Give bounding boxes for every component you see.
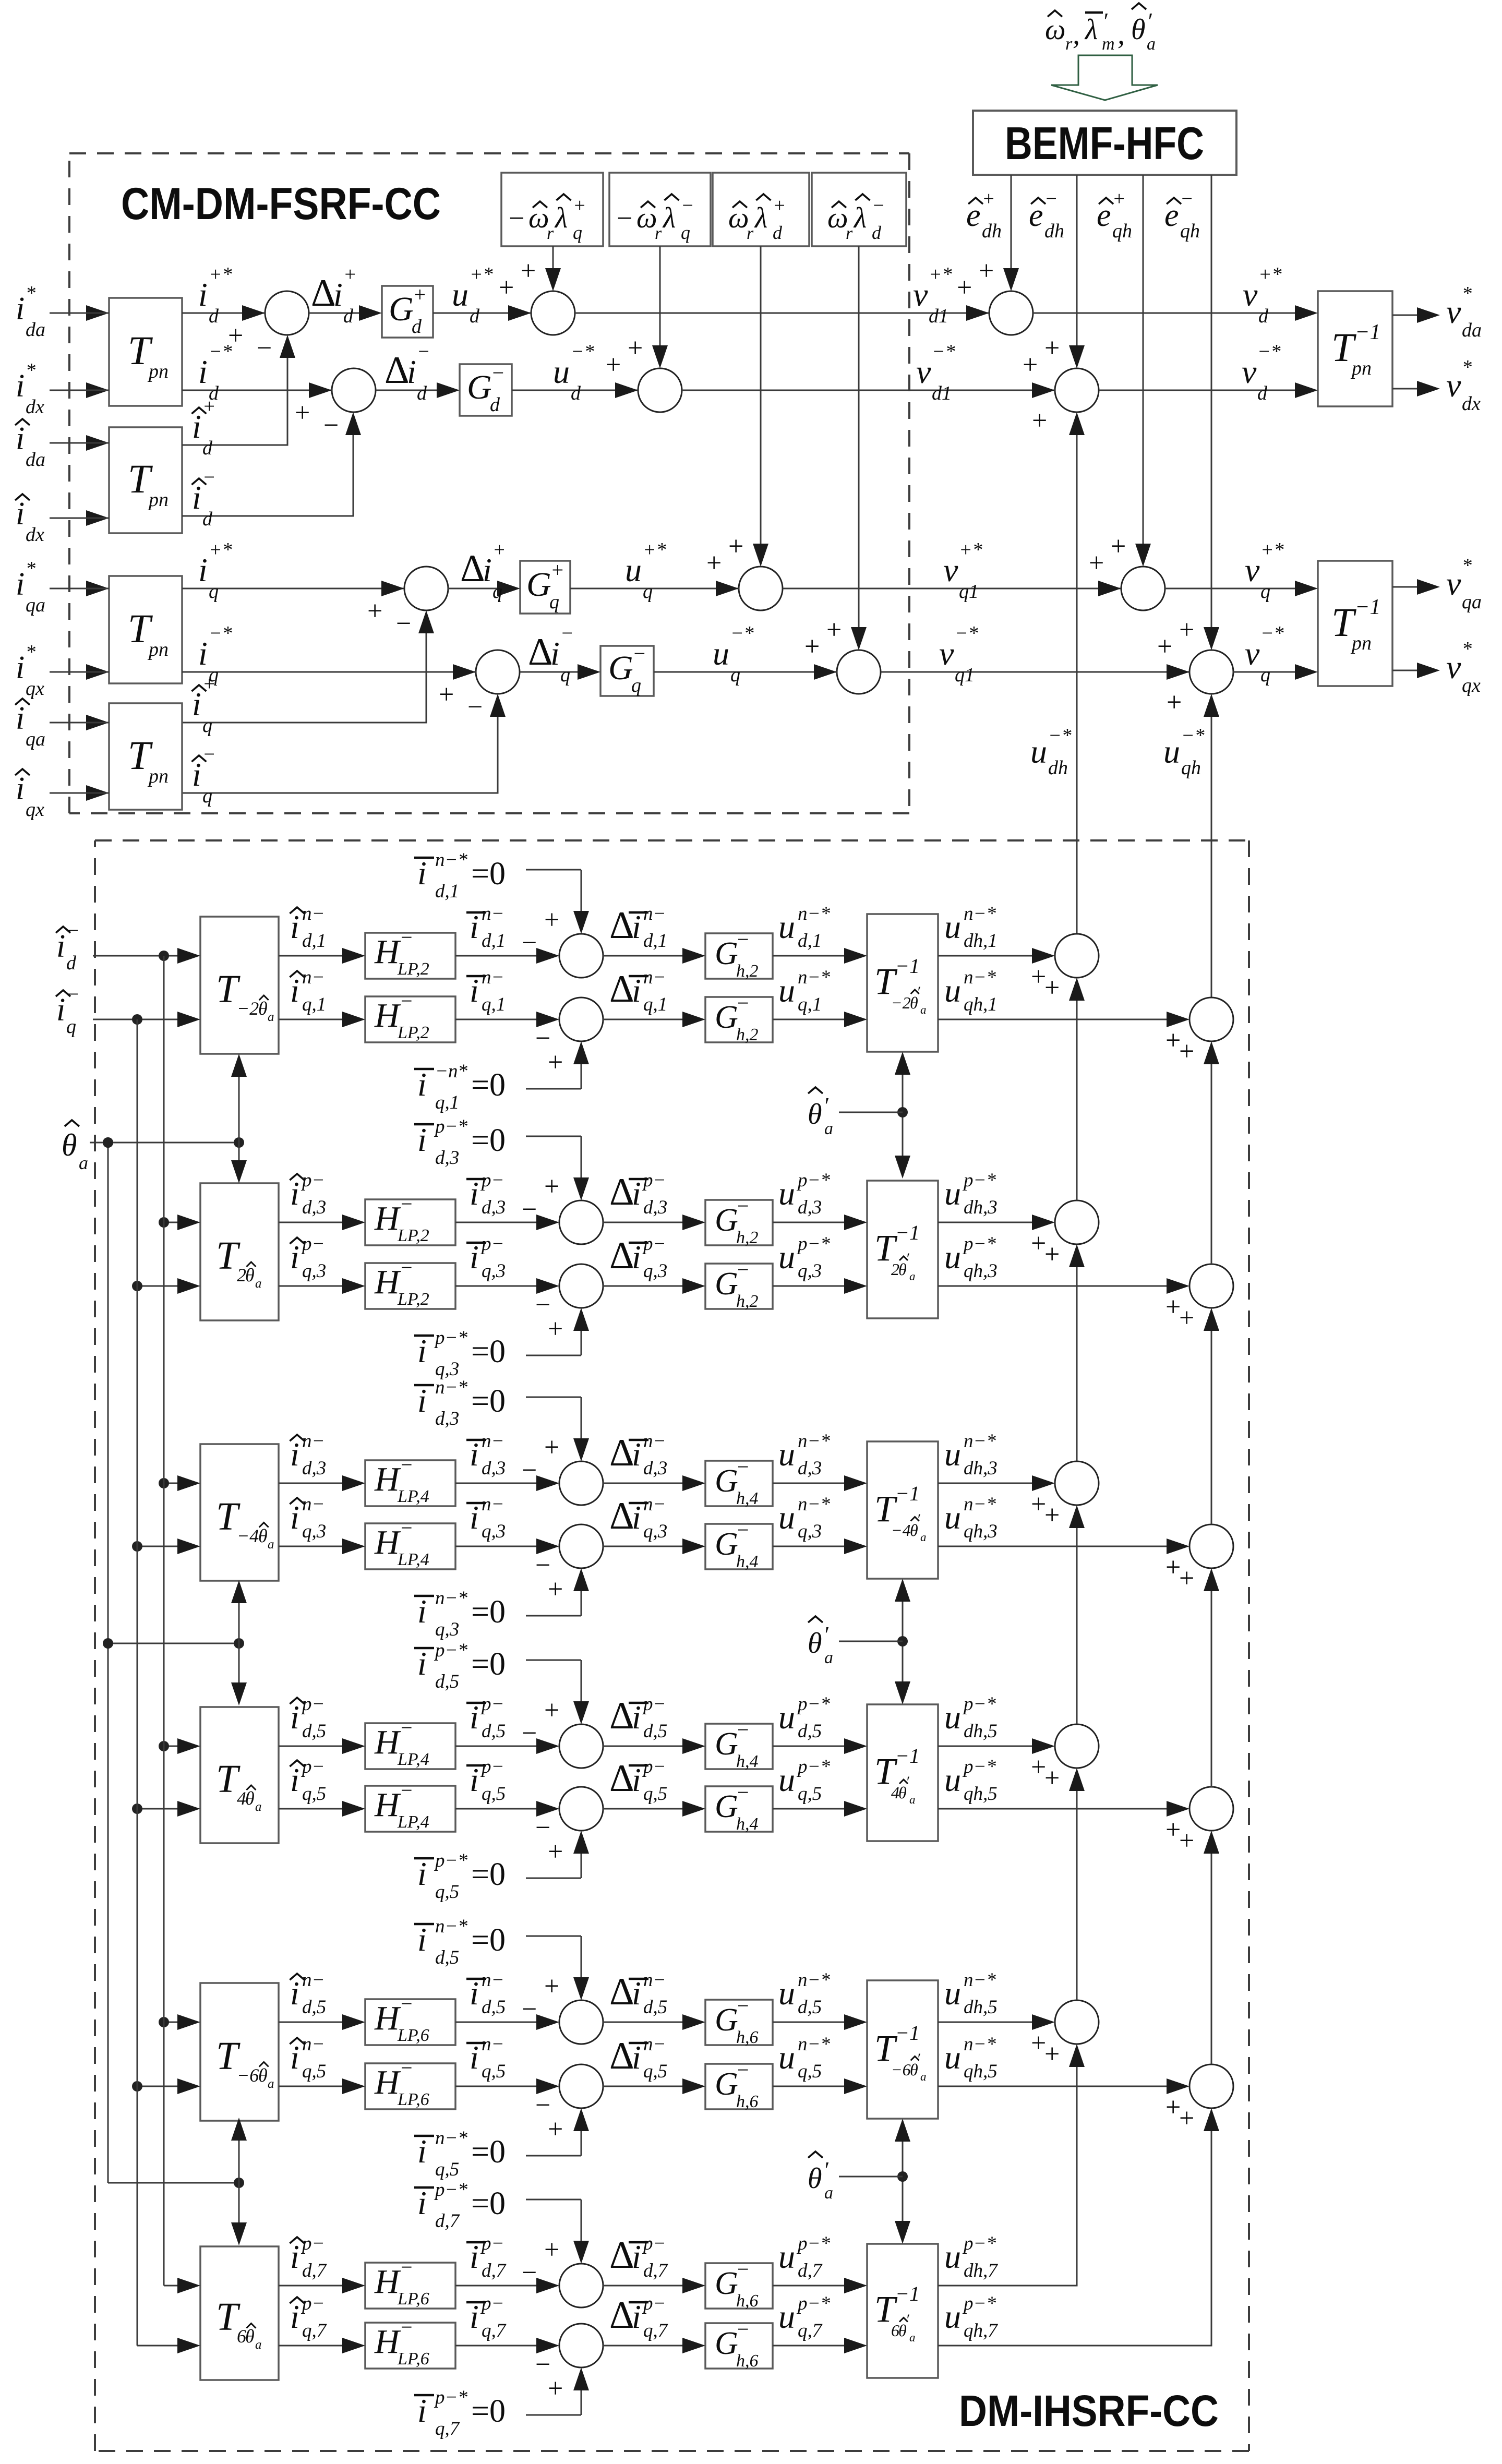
svg-text:i: i	[56, 992, 65, 1028]
svg-text:u: u	[778, 972, 795, 1009]
svg-text:i: i	[290, 1436, 299, 1473]
svg-text:d,1: d,1	[798, 930, 822, 952]
svg-text:d,5: d,5	[798, 1721, 822, 1742]
svg-text:u: u	[944, 972, 961, 1009]
svg-text:−: −	[323, 411, 339, 440]
svg-text:d,5: d,5	[643, 1997, 667, 2018]
svg-text:+: +	[1031, 1752, 1046, 1782]
svg-text:p−: p−	[480, 1170, 504, 1191]
svg-text:Δ: Δ	[609, 2294, 634, 2337]
svg-text:+: +	[202, 673, 216, 695]
svg-text:pn: pn	[147, 360, 169, 382]
svg-text:q,3: q,3	[482, 1260, 506, 1282]
svg-text:d: d	[343, 305, 354, 327]
svg-text:q,3: q,3	[643, 1260, 667, 1282]
svg-text:θ: θ	[258, 1525, 268, 1546]
svg-text:p−*: p−*	[434, 1327, 467, 1349]
svg-text:+: +	[367, 596, 382, 626]
svg-text:h,6: h,6	[736, 2291, 759, 2311]
svg-text:q: q	[631, 675, 641, 696]
svg-text:i: i	[470, 2039, 479, 2076]
svg-text:LP,2: LP,2	[397, 1023, 429, 1042]
svg-text:n−: n−	[302, 1494, 325, 1515]
svg-text:u: u	[778, 2298, 795, 2335]
svg-text:+: +	[1179, 2104, 1194, 2133]
svg-text:v: v	[913, 276, 928, 313]
svg-text:u: u	[452, 276, 468, 313]
svg-text:h,2: h,2	[736, 1228, 759, 1247]
svg-text:q,1: q,1	[435, 1092, 459, 1113]
svg-text:q,3: q,3	[302, 1521, 326, 1542]
svg-text:i: i	[632, 1761, 641, 1798]
svg-text:d: d	[202, 508, 213, 530]
svg-text:Δ: Δ	[384, 349, 410, 392]
svg-text:−: −	[522, 2258, 537, 2288]
svg-text:i: i	[290, 972, 299, 1009]
svg-text:q,5: q,5	[798, 2061, 822, 2082]
svg-text:i: i	[417, 1921, 427, 1958]
svg-text:i: i	[192, 686, 201, 723]
svg-text:a: a	[79, 1152, 88, 1173]
svg-text:n−*: n−*	[964, 903, 996, 924]
svg-text:Δ: Δ	[311, 272, 336, 315]
svg-text:dh,5: dh,5	[964, 1721, 998, 1742]
svg-text:+: +	[550, 558, 564, 582]
svg-text:−: −	[396, 609, 411, 639]
svg-text:+: +	[1031, 1229, 1046, 1258]
svg-text:−1: −1	[1355, 320, 1380, 344]
svg-text:v: v	[943, 551, 958, 588]
svg-text:+: +	[1179, 1564, 1194, 1593]
svg-text:v: v	[916, 353, 931, 390]
svg-text:LP,6: LP,6	[397, 2349, 429, 2369]
svg-text:h,4: h,4	[736, 1752, 759, 1771]
svg-text:+: +	[1023, 350, 1038, 380]
svg-text:p−: p−	[301, 1170, 325, 1191]
svg-text:qh,3: qh,3	[964, 1260, 998, 1282]
svg-text:v: v	[1245, 551, 1260, 588]
svg-text:dh,3: dh,3	[964, 1458, 998, 1479]
svg-text:+: +	[1167, 688, 1182, 717]
svg-text:+*: +*	[643, 539, 666, 561]
svg-text:Δ: Δ	[609, 1757, 634, 1800]
svg-text:+: +	[548, 2374, 563, 2403]
svg-text:*: *	[26, 282, 35, 304]
svg-text:n−: n−	[302, 967, 325, 988]
svg-text:−4: −4	[237, 1525, 259, 1546]
svg-text:+: +	[1031, 1489, 1046, 1519]
svg-text:da: da	[26, 449, 45, 471]
svg-text:λ: λ	[754, 202, 767, 234]
svg-text:d,3: d,3	[302, 1458, 326, 1479]
svg-text:LP,4: LP,4	[397, 1812, 429, 1832]
svg-text:i: i	[632, 1175, 641, 1212]
svg-text:*: *	[26, 359, 35, 381]
svg-text:−: −	[737, 928, 749, 951]
svg-text:+: +	[492, 539, 506, 561]
svg-text:+: +	[1031, 962, 1046, 992]
svg-text:G: G	[715, 2266, 738, 2301]
svg-text:−: −	[401, 925, 413, 949]
svg-text:d: d	[417, 382, 427, 404]
svg-text:−: −	[401, 1256, 413, 1279]
svg-text:v: v	[1242, 353, 1257, 390]
svg-text:p−*: p−*	[962, 1233, 996, 1255]
svg-text:dx: dx	[26, 396, 44, 418]
svg-text:a: a	[920, 1531, 927, 1544]
svg-text:q: q	[1260, 581, 1270, 603]
svg-text:G: G	[389, 290, 414, 328]
svg-text:q: q	[681, 222, 690, 243]
svg-text:i: i	[16, 421, 25, 456]
svg-text:+: +	[1179, 1826, 1194, 1856]
svg-text:i: i	[198, 353, 208, 390]
svg-text:v: v	[1446, 367, 1461, 404]
svg-text:p−: p−	[642, 1170, 666, 1191]
svg-text:q,3: q,3	[798, 1260, 822, 1282]
svg-text:−: −	[681, 195, 694, 217]
svg-text:=0: =0	[471, 856, 506, 892]
svg-text:n−*: n−*	[964, 1431, 996, 1452]
svg-text:−: −	[202, 466, 216, 488]
svg-text:′: ′	[906, 1250, 909, 1267]
svg-text:p−*: p−*	[796, 1233, 830, 1255]
svg-text:+: +	[1044, 2039, 1060, 2069]
svg-text:a: a	[268, 1010, 274, 1024]
svg-text:+: +	[1179, 1037, 1194, 1066]
svg-text:q: q	[209, 581, 219, 603]
svg-text:θ: θ	[245, 1265, 255, 1285]
svg-text:+: +	[1044, 333, 1060, 363]
svg-text:pn: pn	[147, 765, 169, 787]
svg-text:−*: −*	[1048, 725, 1072, 747]
svg-text:−: −	[617, 202, 632, 234]
svg-text:h,2: h,2	[736, 961, 759, 981]
svg-text:d: d	[209, 305, 219, 327]
svg-text:LP,4: LP,4	[397, 1750, 429, 1769]
svg-text:−1: −1	[895, 1482, 920, 1505]
svg-text:+: +	[1044, 973, 1060, 1003]
svg-text:u: u	[778, 1436, 795, 1473]
svg-text:h,2: h,2	[736, 1292, 759, 1311]
svg-text:qx: qx	[26, 678, 44, 700]
svg-text:*: *	[1462, 356, 1472, 378]
svg-text:G: G	[715, 1203, 738, 1238]
svg-text:u: u	[1163, 733, 1180, 770]
svg-text:′: ′	[906, 2311, 909, 2328]
svg-text:n−: n−	[482, 1494, 504, 1515]
svg-text:i: i	[333, 276, 343, 313]
svg-text:*: *	[1462, 283, 1472, 305]
svg-text:i: i	[632, 972, 641, 1009]
svg-text:=0: =0	[471, 1067, 506, 1103]
svg-text:−: −	[737, 2317, 749, 2341]
svg-text:h,6: h,6	[736, 2028, 759, 2047]
svg-text:i: i	[417, 1593, 427, 1630]
svg-text:−: −	[737, 1518, 749, 1542]
svg-text:h,6: h,6	[736, 2092, 759, 2111]
svg-text:u: u	[778, 2238, 795, 2275]
svg-text:−: −	[202, 743, 216, 765]
svg-text:−: −	[401, 1992, 413, 2015]
svg-text:−: −	[737, 1718, 749, 1741]
svg-text:n−*: n−*	[964, 1969, 996, 1991]
svg-text:qh,3: qh,3	[964, 1521, 998, 1542]
svg-text:p−: p−	[642, 2233, 666, 2254]
svg-text:q,5: q,5	[482, 1783, 506, 1805]
svg-text:−*: −*	[730, 622, 754, 644]
svg-text:+: +	[1179, 1303, 1194, 1333]
svg-text:−1: −1	[1355, 595, 1380, 619]
svg-text:−: −	[737, 991, 749, 1015]
svg-text:=0: =0	[471, 1123, 506, 1158]
svg-text:q,1: q,1	[482, 994, 506, 1015]
svg-text:i: i	[290, 2238, 299, 2275]
svg-text:d: d	[1257, 382, 1268, 404]
svg-text:a: a	[255, 1800, 262, 1814]
svg-text:ω: ω	[1045, 14, 1066, 46]
svg-text:i: i	[470, 1499, 479, 1536]
svg-text:q: q	[1260, 664, 1270, 686]
svg-text:+: +	[628, 333, 643, 363]
svg-text:p−: p−	[642, 2293, 666, 2314]
svg-text:−*: −*	[1181, 725, 1205, 747]
svg-text:u: u	[625, 551, 642, 588]
svg-text:u: u	[1030, 733, 1047, 770]
svg-text:i: i	[16, 567, 25, 602]
svg-text:′: ′	[906, 1773, 909, 1790]
svg-text:p−*: p−*	[796, 1756, 830, 1777]
svg-text:i: i	[417, 1066, 427, 1103]
svg-text:u: u	[553, 353, 570, 390]
svg-text:−*: −*	[932, 341, 955, 363]
svg-text:i: i	[417, 1332, 427, 1369]
svg-text:qh,1: qh,1	[964, 994, 998, 1015]
svg-text:pn: pn	[147, 639, 169, 660]
svg-text:+: +	[1031, 2028, 1046, 2058]
svg-text:Δ: Δ	[609, 904, 634, 947]
svg-text:d,1: d,1	[482, 930, 506, 952]
svg-text:dh,1: dh,1	[964, 930, 998, 952]
svg-text:q,7: q,7	[482, 2320, 507, 2341]
svg-text:G: G	[715, 2066, 738, 2102]
svg-text:d: d	[66, 952, 77, 974]
svg-text:i: i	[417, 1855, 427, 1892]
svg-text:+: +	[982, 188, 995, 210]
svg-text:n−: n−	[482, 967, 504, 988]
svg-text:+: +	[544, 1433, 559, 1462]
svg-text:i: i	[470, 972, 479, 1009]
svg-text:G: G	[715, 1789, 738, 1824]
svg-text:v: v	[1446, 565, 1461, 602]
svg-text:′: ′	[1102, 8, 1108, 34]
svg-text:−: −	[401, 2255, 413, 2279]
svg-text:θ: θ	[62, 1128, 77, 1162]
svg-text:−*: −*	[209, 341, 232, 363]
svg-text:−: −	[737, 1781, 749, 1804]
svg-text:q,1: q,1	[302, 994, 326, 1015]
svg-text:u: u	[944, 1175, 961, 1212]
svg-text:+: +	[773, 195, 786, 217]
svg-text:i: i	[632, 1975, 641, 2012]
svg-text:Δ: Δ	[609, 1234, 634, 1277]
svg-text:d1: d1	[932, 382, 952, 404]
svg-text:=0: =0	[471, 1384, 506, 1419]
svg-text:d: d	[872, 222, 882, 243]
svg-text:+: +	[1165, 1815, 1181, 1845]
svg-text:−: −	[401, 1716, 413, 1739]
svg-text:q: q	[202, 785, 212, 807]
svg-text:+: +	[1032, 406, 1047, 436]
svg-text:u: u	[944, 1499, 961, 1536]
svg-text:+: +	[548, 1314, 563, 1344]
svg-text:n−: n−	[482, 1431, 504, 1452]
svg-text:u: u	[944, 1239, 961, 1276]
svg-text:θ: θ	[808, 2162, 822, 2195]
svg-text:p−: p−	[642, 1693, 666, 1715]
svg-text:a: a	[268, 1537, 274, 1552]
svg-text:d,5: d,5	[302, 1997, 326, 2018]
svg-text:θ: θ	[808, 1627, 822, 1660]
svg-text:u: u	[778, 1975, 795, 2012]
svg-text:−: −	[467, 692, 483, 722]
svg-text:n−*: n−*	[798, 903, 830, 924]
svg-text:dh,5: dh,5	[964, 1997, 998, 2018]
svg-text:i: i	[407, 353, 416, 390]
svg-text:Δ: Δ	[609, 1171, 634, 1213]
svg-text:h,2: h,2	[736, 1025, 759, 1044]
svg-text:i: i	[632, 2298, 641, 2335]
svg-text:+: +	[1179, 615, 1194, 645]
svg-text:+: +	[1165, 1026, 1181, 1055]
svg-text:p−*: p−*	[434, 1640, 467, 1661]
svg-text:d,3: d,3	[482, 1458, 506, 1479]
svg-text:q,3: q,3	[302, 1260, 326, 1282]
svg-text:i: i	[192, 479, 201, 516]
svg-text:u: u	[944, 1699, 961, 1736]
svg-text:=0: =0	[471, 1594, 506, 1630]
svg-text:i: i	[417, 1382, 427, 1419]
svg-text:qh: qh	[1180, 220, 1200, 242]
svg-text:i: i	[470, 1975, 479, 2012]
svg-text:dh,3: dh,3	[964, 1197, 998, 1218]
svg-text:p−: p−	[480, 1233, 504, 1255]
svg-text:p−*: p−*	[962, 1170, 996, 1191]
svg-text:p−: p−	[301, 1233, 325, 1255]
svg-text:a: a	[909, 1270, 916, 1283]
svg-text:i: i	[470, 908, 479, 945]
svg-text:BEMF-HFC: BEMF-HFC	[1005, 117, 1204, 169]
svg-text:r: r	[747, 224, 754, 243]
svg-text:−: −	[872, 195, 885, 217]
svg-text:r: r	[547, 224, 554, 243]
svg-text:u: u	[944, 908, 961, 945]
svg-text:da: da	[26, 319, 45, 341]
svg-text:u: u	[778, 1761, 795, 1798]
svg-text:d: d	[470, 305, 480, 327]
svg-text:q,7: q,7	[435, 2418, 460, 2439]
svg-text:+: +	[1089, 548, 1104, 578]
svg-text:pn: pn	[147, 489, 169, 511]
svg-text:qh,7: qh,7	[964, 2320, 998, 2341]
svg-text:v: v	[1245, 635, 1260, 672]
svg-text:θ: θ	[808, 1098, 822, 1131]
svg-text:+: +	[544, 2235, 559, 2265]
svg-text:d,3: d,3	[435, 1408, 459, 1429]
svg-text:G: G	[715, 1527, 738, 1562]
svg-text:−: −	[491, 361, 505, 384]
svg-text:+: +	[544, 1696, 559, 1725]
svg-text:+*: +*	[1258, 263, 1282, 285]
svg-text:d: d	[490, 394, 500, 416]
svg-text:+: +	[413, 283, 427, 306]
svg-text:+: +	[1044, 1763, 1060, 1793]
svg-text:q,5: q,5	[482, 2061, 506, 2082]
svg-text:d1: d1	[929, 305, 948, 327]
svg-text:+: +	[706, 548, 722, 578]
svg-text:−: −	[401, 1778, 413, 1802]
svg-text:dh: dh	[1044, 220, 1064, 242]
svg-text:qh: qh	[1181, 757, 1201, 779]
svg-text:u: u	[778, 2039, 795, 2076]
svg-text:d,3: d,3	[302, 1197, 326, 1218]
svg-text:n−*: n−*	[798, 1431, 830, 1452]
svg-text:i: i	[198, 276, 208, 313]
svg-text:p−: p−	[642, 1233, 666, 1255]
svg-text:i: i	[417, 1645, 427, 1682]
svg-text:p−: p−	[301, 2233, 325, 2254]
svg-text:−*: −*	[1260, 622, 1284, 644]
svg-text:p−: p−	[480, 2233, 504, 2254]
svg-text:*: *	[26, 641, 35, 663]
svg-text:d: d	[202, 437, 213, 459]
svg-text:p−*: p−*	[434, 2387, 467, 2408]
svg-text:r: r	[846, 224, 853, 243]
svg-text:+*: +*	[470, 263, 493, 285]
svg-text:i: i	[470, 1175, 479, 1212]
svg-text:i: i	[632, 908, 641, 945]
svg-text:i: i	[192, 756, 201, 793]
svg-text:p−*: p−*	[796, 2233, 830, 2254]
svg-text:da: da	[1462, 319, 1482, 341]
svg-text:−: −	[522, 1195, 537, 1224]
svg-text:−: −	[417, 341, 430, 363]
svg-text:u: u	[778, 1499, 795, 1536]
svg-text:−6: −6	[891, 2060, 911, 2079]
svg-text:Δ: Δ	[609, 968, 634, 1011]
svg-text:θ: θ	[245, 2326, 255, 2347]
svg-text:d,7: d,7	[435, 2210, 460, 2232]
svg-text:n−*: n−*	[435, 1588, 467, 1609]
svg-text:+: +	[1044, 1240, 1060, 1269]
svg-text:a: a	[268, 2077, 274, 2091]
svg-text:i: i	[16, 650, 25, 686]
svg-text:+: +	[499, 273, 514, 303]
svg-text:q,5: q,5	[435, 2159, 459, 2180]
svg-text:n−*: n−*	[435, 1916, 467, 1937]
svg-text:i: i	[550, 635, 560, 672]
svg-text:i: i	[632, 1436, 641, 1473]
svg-text:i: i	[470, 1239, 479, 1276]
svg-text:+: +	[544, 1972, 559, 2001]
svg-text:i: i	[290, 1175, 299, 1212]
svg-text:qa: qa	[1462, 591, 1482, 613]
svg-text:i: i	[632, 1239, 641, 1276]
svg-text:−: −	[401, 989, 413, 1013]
svg-text:Δ: Δ	[609, 1432, 634, 1474]
svg-text:+: +	[439, 680, 454, 710]
svg-text:qh,5: qh,5	[964, 1783, 998, 1805]
